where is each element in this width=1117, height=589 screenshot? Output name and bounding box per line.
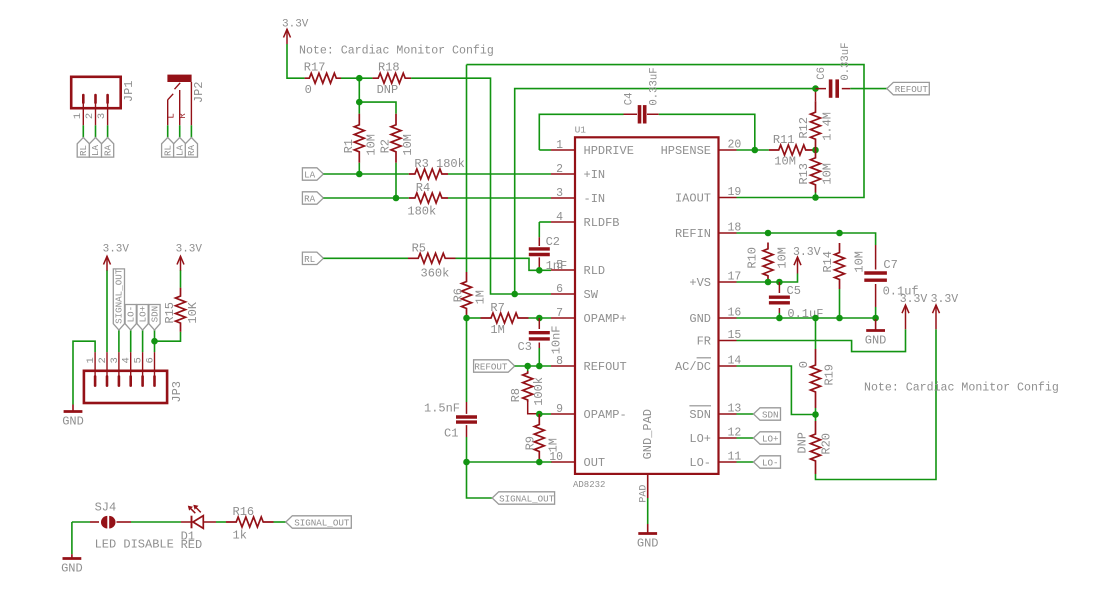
net flag SDN (pin13) [754, 408, 781, 420]
svg-text:+VS: +VS [689, 276, 711, 290]
svg-text:2: 2 [556, 163, 563, 176]
svg-text:C7: C7 [883, 258, 897, 272]
svg-text:7: 7 [556, 307, 563, 320]
net flag LO- (JP3) [125, 305, 136, 331]
svg-text:LO+: LO+ [762, 434, 779, 445]
wire R1 top lead-in [358, 102, 360, 114]
wire R13 bottom [815, 193, 817, 198]
wire C4 right to pin20 [659, 114, 755, 150]
svg-text:R13: R13 [797, 163, 811, 185]
resistor R3 [409, 169, 448, 179]
supply 3.3V (R20) [933, 305, 940, 329]
wire C7 bottom [875, 307, 877, 318]
svg-text:REFIN: REFIN [675, 227, 711, 241]
supply 3.3V (R15) [177, 256, 184, 270]
supply 3.3V (JP3 pin2) [104, 256, 111, 270]
resistor R13 [811, 150, 821, 193]
resistor R8 bottom bend [528, 402, 540, 414]
wire SDN pin13 [737, 413, 754, 415]
svg-text:R20: R20 [820, 433, 834, 455]
svg-text:R14: R14 [821, 251, 835, 273]
capacitor C5 leads [778, 282, 780, 313]
junction R9/OUT [536, 459, 543, 466]
supply 3.3V (R17) [284, 29, 291, 44]
svg-text:REFOUT: REFOUT [895, 84, 929, 95]
svg-text:10M: 10M [774, 155, 796, 169]
wire R19 bottom [815, 408, 817, 415]
svg-text:0: 0 [797, 361, 811, 368]
svg-text:IAOUT: IAOUT [675, 192, 711, 206]
junction GND/R19 [812, 315, 819, 322]
wire +VS rail [737, 274, 798, 283]
capacitor C3 [529, 333, 550, 339]
svg-text:9: 9 [556, 403, 563, 416]
svg-text:3.3V: 3.3V [176, 244, 203, 256]
wire C6 to REFOUT flag [850, 88, 887, 90]
net flag SIGNAL_OUT (JP3) [113, 269, 124, 330]
net flag SIGNAL_OUT (LED row) [286, 516, 352, 528]
wire JP2 R to flag [190, 125, 192, 138]
net flag RA (JP1-3) [102, 138, 114, 158]
wire LA to R3 [323, 173, 408, 175]
net flag LA (JP1-2) [89, 138, 101, 158]
junction GND/C5 [776, 315, 783, 322]
svg-text:3: 3 [96, 113, 108, 119]
wire LO+ pin12 [737, 437, 754, 439]
svg-text:8: 8 [556, 355, 563, 368]
svg-text:1.5nF: 1.5nF [424, 402, 460, 416]
svg-text:HPDRIVE: HPDRIVE [584, 144, 634, 158]
wire REFOUT flag to pin8 [515, 365, 551, 367]
wire HPDRIVE pin1 [539, 149, 551, 151]
wire SJ4 to GND [71, 522, 73, 554]
wire RLDFB pin4 [539, 221, 551, 223]
net flag REFOUT (left) [474, 360, 515, 372]
net flag RA [302, 192, 323, 204]
svg-text:10M: 10M [821, 163, 835, 185]
svg-text:JP1: JP1 [122, 80, 136, 102]
svg-text:LA: LA [174, 144, 185, 156]
capacitor C3 leads [538, 318, 540, 348]
jumper JP2 [167, 75, 205, 126]
svg-text:C2: C2 [546, 235, 560, 249]
svg-text:DNP: DNP [796, 432, 810, 454]
svg-text:R18: R18 [378, 61, 400, 75]
svg-text:OUT: OUT [584, 456, 606, 470]
svg-text:R7: R7 [490, 301, 504, 315]
svg-text:R4: R4 [416, 181, 430, 195]
svg-text:RL: RL [162, 145, 173, 156]
svg-text:3.3V: 3.3V [282, 18, 309, 30]
svg-text:SJ4: SJ4 [95, 501, 117, 515]
svg-text:GND: GND [689, 312, 711, 326]
svg-text:3.3V: 3.3V [793, 246, 821, 259]
svg-text:AD8232: AD8232 [573, 480, 605, 490]
svg-text:3.3V: 3.3V [931, 293, 959, 306]
svg-text:C3: C3 [518, 340, 532, 354]
capacitor C5 [769, 297, 790, 303]
junction GND/C7 [872, 315, 879, 322]
svg-text:RA: RA [304, 194, 316, 205]
LED D1 [181, 505, 216, 529]
wire GND rail pin16 [737, 317, 876, 319]
junction REFOUT/R8 [524, 363, 531, 370]
svg-text:10K: 10K [186, 301, 200, 323]
wire SJ4 to D1 [131, 521, 181, 523]
wire JP2 mid to flag [179, 125, 181, 138]
connector JP3 [84, 352, 184, 403]
svg-text:R12: R12 [797, 117, 811, 139]
net flag LO+ (JP3) [137, 305, 148, 331]
svg-text:SIGNAL_OUT: SIGNAL_OUT [294, 518, 350, 529]
wire C4 left [539, 114, 623, 150]
svg-text:R19: R19 [822, 364, 836, 386]
svg-text:1: 1 [72, 113, 84, 119]
svg-text:2: 2 [97, 357, 109, 363]
capacitor C7 leads [875, 245, 877, 307]
svg-text:SDN: SDN [689, 408, 711, 422]
wire REFIN rail [737, 233, 876, 245]
svg-text:10M: 10M [853, 251, 867, 273]
net flag SIGNAL_OUT (OUT) [492, 492, 554, 504]
junction REFOUT rail/C6 [812, 85, 819, 92]
svg-text:100k: 100k [532, 377, 546, 406]
wire R20 top [815, 415, 817, 422]
wire LO- pin11 [737, 461, 754, 463]
svg-text:1k: 1k [233, 528, 247, 542]
svg-text:R: R [178, 113, 188, 119]
svg-text:RA: RA [186, 144, 197, 156]
junction C4/pin20/R11 [752, 147, 759, 154]
svg-text:L: L [167, 113, 177, 118]
junction SW wire [511, 291, 518, 298]
svg-text:HPSENSE: HPSENSE [661, 144, 711, 158]
wire 3.3V to R17 [287, 44, 305, 78]
svg-text:JP2: JP2 [192, 81, 206, 103]
wire R6 junction to R7 [467, 317, 481, 319]
wire RA to R4 [323, 197, 408, 199]
wire FR to 3.3V [737, 329, 906, 351]
svg-text:+IN: +IN [584, 168, 606, 182]
junction R13/IAOUT [812, 194, 819, 201]
svg-text:R6: R6 [451, 288, 465, 302]
svg-text:U1: U1 [575, 125, 587, 136]
wire JP3 pin2 to 3.3V [106, 270, 108, 352]
svg-text:10M: 10M [365, 134, 379, 156]
resistor R9 [534, 414, 544, 462]
junction R11/R12/R13 [812, 147, 819, 154]
svg-text:10nF: 10nF [549, 325, 563, 354]
wire R16 to flag [274, 521, 287, 523]
junction GND/R14 [836, 315, 843, 322]
svg-text:RLD: RLD [584, 264, 606, 278]
wire RL to R5 [323, 257, 408, 259]
resistor R15 [176, 288, 186, 332]
svg-text:SIGNAL_OUT: SIGNAL_OUT [114, 268, 125, 324]
svg-text:C4: C4 [624, 93, 636, 106]
junction R19/R20/ACDC [812, 411, 819, 418]
svg-text:R2: R2 [379, 139, 393, 153]
resistor R2 [391, 114, 401, 163]
wire R15 top to 3.3V [180, 270, 182, 288]
capacitor C2 leads [538, 237, 540, 270]
svg-text:R15: R15 [163, 302, 177, 324]
svg-text:OPAMP-: OPAMP- [584, 408, 627, 422]
svg-text:LA: LA [90, 144, 101, 156]
ground (JP3) [72, 405, 74, 412]
net flag REFOUT (right) [887, 82, 930, 94]
resistor R16 [226, 517, 274, 527]
resistor R5 [408, 253, 456, 263]
wire R15 bottom to SDN net [155, 332, 181, 342]
svg-text:R9: R9 [523, 436, 537, 450]
svg-text:0.33uF: 0.33uF [648, 67, 660, 105]
svg-text:GND: GND [865, 334, 887, 348]
svg-text:3: 3 [556, 187, 563, 200]
capacitor C6 [831, 79, 838, 97]
svg-text:C1: C1 [444, 427, 458, 441]
capacitor C1 leads [466, 402, 468, 437]
svg-text:RLDFB: RLDFB [584, 216, 620, 230]
svg-text:LED DISABLE: LED DISABLE [95, 538, 174, 552]
svg-text:C6: C6 [816, 67, 828, 80]
wire OUT rail [467, 461, 552, 463]
resistor R1 [354, 114, 364, 163]
junction R7/C3/pin7 [536, 315, 543, 322]
wire R2 bottom to RA [395, 163, 397, 198]
svg-text:LO+: LO+ [137, 306, 148, 323]
svg-text:10M: 10M [401, 134, 415, 156]
junction LA/R1 [356, 171, 363, 178]
svg-text:GND: GND [62, 415, 84, 429]
svg-text:C5: C5 [787, 284, 801, 298]
svg-text:SDN: SDN [762, 410, 779, 421]
junction RA/R2 [393, 195, 400, 202]
wire JP3 pin4 to flag [130, 330, 132, 353]
svg-text:Note: Cardiac Monitor Config: Note: Cardiac Monitor Config [299, 45, 494, 58]
junction REFIN/R10 [765, 230, 772, 237]
wire R8 top [527, 366, 529, 371]
wire RLD pin5 [539, 269, 551, 271]
wire SW-REFOUT rail [515, 89, 816, 294]
svg-text:LO+: LO+ [689, 432, 711, 446]
svg-text:RED: RED [181, 538, 203, 552]
junction JP3 pin6 / R15 [151, 338, 158, 345]
svg-text:DNP: DNP [377, 83, 399, 97]
svg-text:1M: 1M [490, 323, 504, 337]
svg-text:360k: 360k [421, 267, 450, 281]
resistor R12 [811, 101, 821, 150]
svg-text:REFOUT: REFOUT [474, 362, 508, 373]
wire JP1 pin3 to flag [107, 125, 109, 138]
net flag LA (JP2) [174, 138, 186, 158]
capacitor C6 leads [816, 88, 851, 90]
capacitor C2 [529, 249, 550, 255]
svg-text:5: 5 [132, 357, 144, 363]
svg-text:3: 3 [109, 357, 121, 363]
supply 3.3V (+VS) [794, 257, 801, 274]
junction +VS/C5 [776, 279, 783, 286]
svg-text:SDN: SDN [149, 306, 160, 323]
junction REFOUT/C3 [536, 363, 543, 370]
svg-text:10M: 10M [776, 247, 790, 269]
svg-text:R11: R11 [773, 133, 795, 147]
capacitor C7 [864, 273, 887, 280]
svg-text:3.3V: 3.3V [103, 244, 130, 256]
wire R19 top [815, 318, 817, 349]
svg-text:OPAMP+: OPAMP+ [584, 312, 627, 326]
svg-text:R5: R5 [412, 242, 426, 256]
resistor R7 [481, 313, 529, 323]
svg-text:SW: SW [584, 288, 599, 302]
net flag RL (JP1-1) [77, 138, 89, 158]
resistor R11 [769, 145, 816, 155]
wire C2 top [538, 222, 540, 237]
svg-text:R3 180k: R3 180k [414, 157, 464, 171]
junction C1/OUT [463, 459, 470, 466]
wire R6 line top [466, 65, 468, 272]
svg-text:R1: R1 [342, 139, 356, 153]
resistor R20 [811, 421, 821, 474]
svg-text:6: 6 [556, 283, 563, 296]
svg-text:GND_PAD: GND_PAD [641, 409, 655, 459]
svg-text:RA: RA [102, 144, 113, 156]
wire PAD to GND [647, 498, 649, 524]
net flag RA (JP2) [185, 138, 197, 158]
resistor R14 [835, 243, 845, 289]
wire R17 to R18 [341, 77, 372, 79]
svg-text:R17: R17 [304, 61, 326, 75]
connector JP1 [71, 77, 136, 126]
net flag RL [302, 252, 323, 264]
capacitor C4 [640, 105, 645, 123]
wire R17 junction down [358, 78, 360, 102]
wire IAOUT top rail [467, 65, 865, 198]
svg-text:GND: GND [61, 562, 83, 576]
wire R18 to SW net [411, 78, 551, 294]
svg-text:3.3V: 3.3V [900, 293, 928, 306]
svg-text:SIGNAL_OUT: SIGNAL_OUT [499, 494, 555, 505]
ground (C7) [875, 319, 877, 331]
svg-text:RL: RL [304, 254, 315, 265]
wire pin20 to R11 [737, 149, 769, 151]
svg-text:JP3: JP3 [170, 381, 184, 403]
svg-text:R8: R8 [509, 388, 523, 402]
junction C2/RLD/R5 [536, 267, 543, 274]
svg-text:4: 4 [556, 211, 563, 224]
wire JP3 pin3 to flag [118, 330, 120, 353]
svg-text:-IN: -IN [584, 192, 606, 206]
solder jumper SJ4 [90, 516, 131, 529]
wire JP2 L to flag [167, 125, 169, 138]
svg-text:0.33uF: 0.33uF [840, 43, 852, 81]
resistor R12 top lead [815, 89, 817, 102]
junction R17/R18/R1 [356, 75, 363, 82]
capacitor C4 leads [624, 113, 659, 115]
wire R7 to pin7 [529, 317, 552, 319]
wire R1 bottom to LA [358, 163, 360, 174]
capacitor C1 [456, 417, 477, 422]
ground (PAD) [647, 524, 649, 534]
supply 3.3V (FR) [902, 305, 909, 329]
resistor R4 [409, 193, 448, 203]
svg-text:R16: R16 [233, 505, 255, 519]
wire GND corner to SJ4 [72, 521, 90, 523]
svg-text:4: 4 [121, 357, 133, 363]
svg-text:REFOUT: REFOUT [584, 360, 627, 374]
wire AC/DC net [737, 366, 816, 415]
wire R20 bottom to 3.3V [816, 329, 937, 479]
resistor R6 [462, 272, 472, 318]
wire junction to R2 top [359, 102, 396, 114]
svg-text:LO-: LO- [689, 456, 711, 470]
resistor R17 [305, 73, 341, 83]
svg-text:1M: 1M [547, 438, 561, 452]
net flag SDN (JP3) [149, 305, 160, 331]
net flag RL (JP2) [162, 138, 174, 158]
svg-text:R10: R10 [746, 247, 760, 269]
wire JP3 pin1 to GND [73, 341, 95, 404]
wire C1 line [466, 318, 468, 402]
resistor R18 [372, 73, 411, 83]
wire R14 bottom [839, 289, 841, 318]
wire R3 to +IN [448, 173, 551, 175]
resistor R8 [523, 371, 533, 402]
svg-text:1: 1 [556, 139, 563, 152]
svg-text:1M: 1M [473, 290, 487, 304]
svg-text:2: 2 [84, 113, 96, 119]
net flag LO+ (pin12) [754, 432, 781, 444]
wire C3 bottom [538, 348, 540, 366]
svg-text:LO-: LO- [125, 306, 136, 323]
svg-text:RL: RL [78, 145, 89, 156]
svg-text:6: 6 [144, 357, 156, 363]
junction REFIN/R14 [836, 230, 843, 237]
op-amp IC U1 AD8232 [549, 125, 741, 499]
wire JP3 pin5 to flag [142, 330, 144, 353]
svg-text:GND: GND [637, 537, 659, 551]
svg-text:180k: 180k [407, 205, 436, 219]
junction +VS/R10 [765, 279, 772, 286]
wire JP1 pin2 to flag [95, 125, 97, 138]
net flag LO- (pin11) [754, 456, 781, 468]
svg-text:Note: Cardiac Monitor Config: Note: Cardiac Monitor Config [864, 382, 1059, 395]
resistor R10 [763, 243, 773, 283]
wire JP3 pin6 to flag [154, 330, 156, 353]
junction R1/R2 top [356, 99, 363, 106]
ground (SJ4) [71, 554, 73, 558]
svg-text:1.4M: 1.4M [821, 112, 835, 141]
wire pin9 [539, 413, 551, 415]
wire OUT to SIGNAL_OUT [467, 462, 493, 498]
wire R4 to -IN [448, 197, 551, 199]
junction R6/R7/C1 [463, 315, 470, 322]
svg-text:AC/DC: AC/DC [675, 360, 711, 374]
wire C5 bottom [778, 313, 780, 318]
wire R5 to RLD net [456, 258, 540, 270]
svg-text:LO-: LO- [762, 458, 779, 469]
net flag LA [302, 168, 323, 180]
svg-text:1: 1 [85, 357, 97, 363]
resistor R19 [811, 349, 821, 408]
junction R8/R9/pin9 [536, 411, 543, 418]
wire C1 bottom to OUT [466, 437, 468, 462]
svg-text:LA: LA [304, 170, 316, 181]
svg-text:FR: FR [697, 335, 711, 349]
wire D1 to R16 [216, 521, 226, 523]
wire JP1 pin1 to flag [82, 125, 84, 138]
svg-text:0: 0 [305, 83, 312, 97]
